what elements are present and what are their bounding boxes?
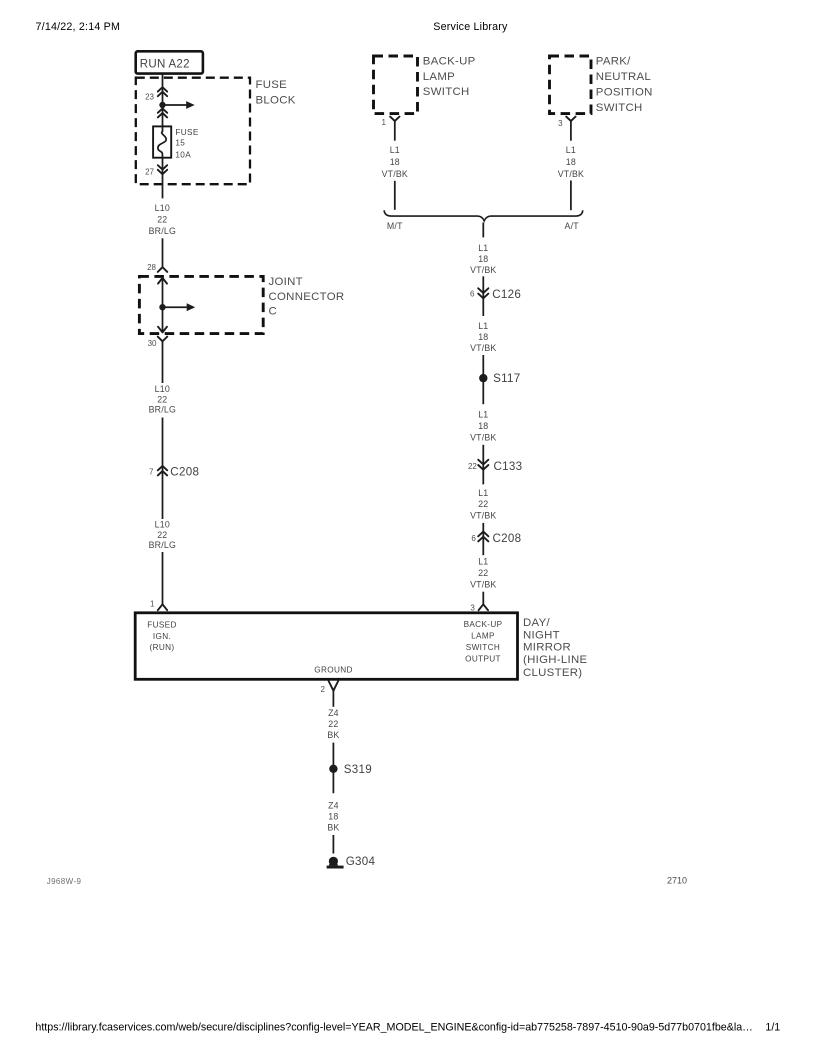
svg-text:L10: L10	[155, 520, 170, 530]
pin 23	[145, 87, 167, 102]
svg-text:CLUSTER): CLUSTER)	[523, 667, 582, 679]
pin 2	[321, 681, 339, 707]
svg-text:BLOCK: BLOCK	[256, 95, 296, 107]
svg-text:22: 22	[157, 214, 167, 224]
wire	[162, 105, 164, 126]
svg-text:1/1: 1/1	[765, 1021, 780, 1033]
svg-text:C208: C208	[170, 465, 199, 478]
svg-text:LAMP: LAMP	[423, 71, 455, 83]
wire label Z4 22 BK	[327, 708, 339, 740]
fuse F15 10A	[153, 126, 199, 159]
fuse block box	[136, 78, 250, 185]
pin 1	[382, 117, 400, 141]
wire	[162, 158, 164, 199]
svg-text:18: 18	[478, 421, 488, 431]
svg-text:L1: L1	[478, 557, 488, 567]
svg-text:3: 3	[470, 604, 475, 613]
pin 28	[147, 263, 167, 272]
label PARK/NEUTRAL POSITION SWITCH	[596, 55, 653, 113]
svg-text:22: 22	[157, 530, 167, 540]
arrow to other circuits	[163, 303, 196, 311]
day/night mirror module box	[135, 613, 517, 680]
svg-text:BR/LG: BR/LG	[149, 226, 176, 236]
wire	[482, 355, 484, 374]
connector C208 pin 7	[149, 465, 199, 478]
svg-text:(HIGH-LINE: (HIGH-LINE	[523, 654, 587, 666]
svg-text:L1: L1	[478, 243, 488, 253]
wire	[332, 743, 334, 764]
svg-text:VT/BK: VT/BK	[470, 265, 496, 275]
pin 3	[470, 604, 488, 613]
svg-text:VT/BK: VT/BK	[470, 511, 496, 521]
label FUSED IGN (RUN)	[147, 620, 177, 652]
wire	[162, 418, 164, 520]
svg-text:L1: L1	[566, 145, 576, 155]
svg-text:30: 30	[148, 339, 157, 348]
svg-text:NIGHT: NIGHT	[523, 629, 560, 641]
svg-text:Z4: Z4	[328, 800, 339, 810]
svg-text:IGN.: IGN.	[153, 632, 171, 641]
svg-text:S319: S319	[344, 763, 372, 776]
svg-text:C: C	[269, 306, 278, 318]
label BACK-UP LAMP SWITCH	[423, 55, 476, 97]
svg-text:22: 22	[157, 394, 167, 404]
svg-text:1: 1	[150, 600, 155, 609]
wire label L1 18 VT/BK	[470, 243, 496, 275]
svg-text:23: 23	[145, 93, 154, 102]
svg-text:VT/BK: VT/BK	[470, 343, 496, 353]
wire label L10 22 BR/LG	[149, 520, 176, 551]
pin 30	[148, 337, 168, 360]
svg-text:22: 22	[468, 462, 477, 471]
svg-text:RUN A22: RUN A22	[140, 59, 190, 71]
wire	[162, 238, 164, 267]
svg-text:NEUTRAL: NEUTRAL	[596, 71, 651, 83]
svg-text:22: 22	[328, 719, 338, 729]
svg-text:M/T: M/T	[387, 221, 403, 231]
wire label L1 22 VT/BK	[470, 488, 496, 521]
svg-text:18: 18	[478, 332, 488, 342]
svg-text:L1: L1	[478, 321, 488, 331]
svg-text:C133: C133	[494, 460, 523, 473]
internal wire with arrows	[158, 278, 167, 333]
svg-text:S117: S117	[493, 372, 520, 385]
svg-text:7: 7	[149, 468, 154, 477]
connector C208 pin 6	[471, 532, 521, 545]
svg-text:JOINT: JOINT	[269, 276, 303, 288]
svg-text:18: 18	[328, 811, 338, 821]
label BACK-UP LAMP SWITCH OUTPUT	[464, 620, 503, 664]
svg-text:J968W-9: J968W-9	[47, 877, 82, 886]
wire	[482, 523, 484, 555]
svg-text:BACK-UP: BACK-UP	[464, 620, 503, 629]
svg-text:VT/BK: VT/BK	[470, 433, 496, 443]
svg-text:DAY/: DAY/	[523, 617, 550, 629]
wire	[162, 360, 164, 383]
svg-text:L1: L1	[478, 488, 488, 498]
svg-text:FUSED: FUSED	[147, 620, 177, 629]
svg-text:LAMP: LAMP	[471, 631, 495, 640]
wire	[482, 276, 484, 316]
svg-text:BK: BK	[327, 730, 339, 740]
wire	[482, 445, 484, 485]
svg-text:A/T: A/T	[565, 221, 580, 231]
connector C126 pin 6	[470, 288, 521, 301]
svg-text:POSITION: POSITION	[596, 87, 653, 99]
svg-text:18: 18	[390, 157, 400, 167]
svg-text:GROUND: GROUND	[314, 666, 353, 675]
svg-text:L10: L10	[155, 384, 170, 394]
svg-text:2: 2	[321, 685, 326, 694]
svg-text:BR/LG: BR/LG	[149, 540, 176, 550]
svg-text:SWITCH: SWITCH	[423, 86, 470, 98]
svg-text:VT/BK: VT/BK	[382, 169, 408, 179]
svg-text:OUTPUT: OUTPUT	[465, 655, 501, 664]
svg-text:10A: 10A	[175, 150, 191, 159]
svg-text:BACK-UP: BACK-UP	[423, 55, 476, 67]
svg-text:3: 3	[558, 119, 563, 128]
svg-text:C208: C208	[493, 532, 522, 545]
junction node	[159, 102, 165, 108]
wire	[570, 181, 572, 211]
wire	[394, 181, 396, 210]
svg-text:BR/LG: BR/LG	[149, 405, 176, 415]
svg-text:Service Library: Service Library	[433, 21, 508, 33]
svg-text:L1: L1	[478, 410, 488, 420]
splice S319	[329, 763, 372, 794]
svg-text:27: 27	[145, 168, 154, 177]
wire label L1 18 VT/BK	[558, 145, 584, 179]
svg-text:FUSE: FUSE	[256, 79, 288, 91]
svg-text:L10: L10	[155, 203, 170, 213]
svg-text:28: 28	[147, 263, 156, 272]
wire label L1 18 VT/BK	[470, 321, 496, 353]
svg-text:1: 1	[382, 118, 387, 127]
back-up lamp switch box	[374, 56, 418, 114]
svg-text:MIRROR: MIRROR	[523, 641, 571, 653]
wire	[482, 592, 484, 605]
label JOINT CONNECTOR C	[269, 276, 345, 317]
wire label L1 22 VT/BK	[470, 557, 496, 590]
svg-text:18: 18	[566, 157, 576, 167]
svg-text:15: 15	[175, 139, 185, 148]
svg-text:BK: BK	[327, 822, 339, 832]
svg-text:(RUN): (RUN)	[150, 643, 175, 652]
arrow to other circuits	[163, 101, 195, 109]
splice S117	[479, 372, 520, 404]
svg-text:22: 22	[478, 568, 488, 578]
svg-text:6: 6	[470, 290, 475, 299]
svg-text:2710: 2710	[667, 876, 687, 886]
svg-text:L1: L1	[390, 145, 400, 155]
svg-text:Z4: Z4	[328, 708, 339, 718]
joint connector C box	[139, 276, 263, 333]
svg-text:7/14/22, 2:14 PM: 7/14/22, 2:14 PM	[36, 21, 121, 33]
wire label L10 22 BR/LG	[149, 384, 176, 415]
wire	[332, 835, 334, 854]
svg-text:6: 6	[471, 534, 476, 543]
svg-text:SWITCH: SWITCH	[466, 643, 500, 652]
svg-text:VT/BK: VT/BK	[558, 169, 584, 179]
M/T A/T bus brace	[384, 210, 583, 231]
connector RUN A22	[136, 51, 203, 73]
svg-text:VT/BK: VT/BK	[470, 580, 496, 590]
svg-text:C126: C126	[492, 288, 521, 301]
connector C133 pin 22	[468, 460, 522, 473]
wire label L10 22 BR/LG	[149, 203, 176, 236]
wire	[162, 74, 164, 105]
wire label L1 18 VT/BK	[382, 145, 408, 179]
chevrons below junction	[158, 108, 167, 117]
pin 27	[145, 165, 167, 176]
pin 1	[150, 600, 167, 611]
svg-text:G304: G304	[346, 855, 376, 868]
svg-text:FUSE: FUSE	[175, 128, 198, 137]
wire label Z4 18 BK	[327, 800, 339, 832]
park/neutral position switch box	[550, 56, 592, 114]
svg-text:22: 22	[478, 499, 488, 509]
svg-text:https://library.fcaservices.co: https://library.fcaservices.com/web/secu…	[35, 1021, 752, 1033]
wire	[162, 552, 164, 604]
ground G304	[327, 855, 376, 869]
svg-text:PARK/: PARK/	[596, 55, 631, 67]
svg-text:CONNECTOR: CONNECTOR	[269, 291, 345, 303]
svg-text:18: 18	[478, 254, 488, 264]
label DAY/NIGHT MIRROR (HIGH-LINE CLUSTER)	[523, 617, 587, 679]
wire	[482, 223, 484, 238]
svg-text:SWITCH: SWITCH	[596, 102, 643, 114]
wire label L1 18 VT/BK	[470, 410, 496, 443]
pin 3	[558, 117, 575, 141]
junction node	[159, 304, 165, 310]
